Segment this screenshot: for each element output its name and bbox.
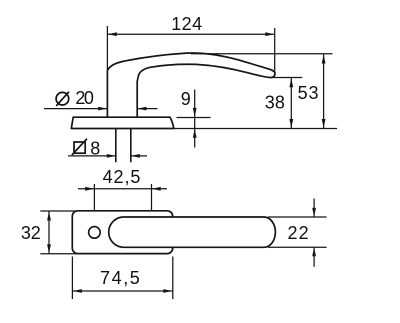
dim Ø20 line left xyxy=(44,108,107,110)
dim 9 extension xyxy=(177,117,211,119)
dim 32 line xyxy=(48,211,50,253)
dim 42,5 line xyxy=(78,188,167,190)
spindle (Ø8 shaft) xyxy=(115,129,117,163)
dim 32 extensions xyxy=(40,210,77,212)
svg-text:38: 38 xyxy=(265,93,285,113)
dim 42,5 extensions xyxy=(93,184,95,211)
dim Ø20 line right xyxy=(138,108,158,110)
dim 22 extensions xyxy=(268,216,327,218)
dim 74,5 extensions xyxy=(71,257,73,300)
handle lever outline xyxy=(107,53,275,117)
dim 38 extension top xyxy=(273,77,303,79)
dim 38 line xyxy=(290,78,292,128)
svg-text:20: 20 xyxy=(75,88,94,108)
dim Ø8 line left xyxy=(68,155,116,157)
screw hole xyxy=(89,227,101,239)
svg-text:32: 32 xyxy=(21,223,41,243)
svg-text:22: 22 xyxy=(288,223,309,243)
dim 124 extension right xyxy=(274,28,276,74)
svg-text:124: 124 xyxy=(171,14,202,34)
svg-text:9: 9 xyxy=(181,89,191,109)
dim 124 line xyxy=(107,33,274,35)
svg-text:8: 8 xyxy=(90,138,100,158)
dim 9 line xyxy=(194,90,196,148)
dim 53 line xyxy=(323,54,325,128)
dim 124 extension left xyxy=(106,26,108,70)
dim 22 line upper xyxy=(313,199,315,217)
dim 22 line lower xyxy=(313,248,315,267)
dim 53 extension top xyxy=(191,53,333,55)
svg-text:42,5: 42,5 xyxy=(103,167,141,187)
flange bottom extension (shared by 9/38/53) xyxy=(174,128,337,130)
label Ø8: squared diameter symbol xyxy=(74,142,85,153)
dim Ø8 line right xyxy=(131,155,147,157)
flange (rosette side view) xyxy=(71,117,174,128)
grip (handle plan) xyxy=(109,217,276,247)
svg-text:74,5: 74,5 xyxy=(100,268,140,288)
svg-text:53: 53 xyxy=(298,83,319,103)
dim 74,5 line xyxy=(73,290,173,292)
plate (rosette plan) xyxy=(72,211,172,254)
label Ø20: diameter symbol xyxy=(56,92,69,105)
